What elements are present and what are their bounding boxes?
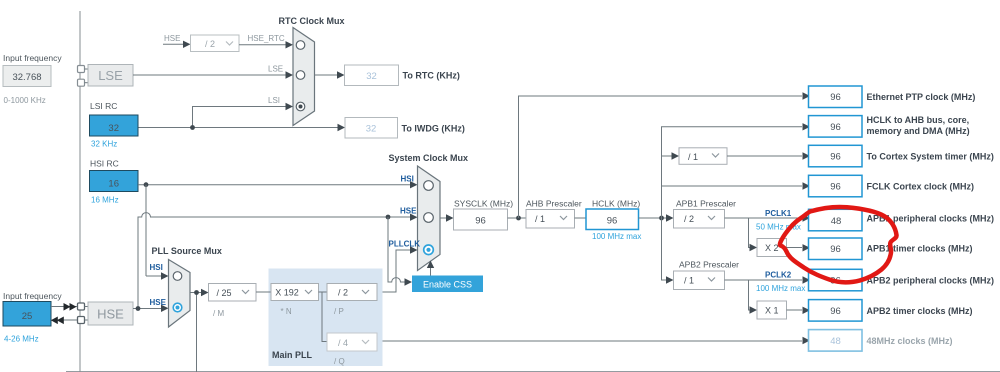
svg-text:To IWDG (KHz): To IWDG (KHz) xyxy=(402,124,465,134)
output row Ethernet PTP xyxy=(809,86,863,108)
svg-text:/ 2: / 2 xyxy=(205,39,215,49)
svg-text:100 MHz max: 100 MHz max xyxy=(756,284,805,293)
APB1 out wire xyxy=(725,217,803,219)
svg-text:AHB Prescaler: AHB Prescaler xyxy=(526,199,582,209)
RTC mux output arrow xyxy=(315,74,339,76)
X2 out wire xyxy=(787,247,803,249)
svg-text:32: 32 xyxy=(366,71,377,82)
CSS feed wire with hop xyxy=(388,217,406,282)
wire LSE to RTC mux xyxy=(133,74,287,76)
svg-text:LSE: LSE xyxy=(268,65,283,74)
wire N to P with branch xyxy=(319,291,328,293)
branch to X2 xyxy=(749,218,752,248)
LSE oscillator block xyxy=(85,68,89,70)
output row HCLK AHB xyxy=(809,116,863,138)
AHB Prescaler dropdown xyxy=(526,210,575,229)
RTC mux port LSE xyxy=(296,71,305,80)
FCLK branch wire xyxy=(662,185,803,187)
svg-text:APB2 timer clocks (MHz): APB2 timer clocks (MHz) xyxy=(867,306,973,316)
svg-text:PCLK1: PCLK1 xyxy=(765,209,792,218)
svg-text:32.768: 32.768 xyxy=(12,72,41,83)
svg-text:PLL Source Mux: PLL Source Mux xyxy=(152,246,222,256)
svg-text:/ 1: / 1 xyxy=(688,152,698,162)
svg-text:/ 1: / 1 xyxy=(535,214,545,224)
HCLK box highlighted xyxy=(586,209,639,230)
RTC mux port HSE_RTC xyxy=(296,41,305,50)
svg-text:32 KHz: 32 KHz xyxy=(91,140,117,149)
HSE out wire to PLL mux xyxy=(133,308,162,310)
svg-text:LSI RC: LSI RC xyxy=(90,101,117,111)
SYSCLK box xyxy=(454,209,508,230)
svg-text:Main PLL: Main PLL xyxy=(272,350,313,360)
wire SYSCLK to AHB prescaler xyxy=(508,217,527,219)
APB2 out wire xyxy=(725,279,803,281)
svg-text:Enable CSS: Enable CSS xyxy=(423,279,472,289)
output row APB2 peripheral xyxy=(809,269,863,291)
svg-text:Input frequency: Input frequency xyxy=(3,291,62,301)
HSE oscillator block xyxy=(85,306,89,308)
APB2 Prescaler dropdown xyxy=(674,271,725,290)
svg-text:memory and DMA (MHz): memory and DMA (MHz) xyxy=(867,126,970,136)
PLL mux port HSE selected xyxy=(173,303,182,312)
svg-text:96: 96 xyxy=(830,152,841,163)
/P dropdown xyxy=(327,284,377,301)
HSI branch down to PLL mux xyxy=(145,185,147,276)
output row APB2 timer xyxy=(809,300,863,322)
pin square HSE bottom xyxy=(78,317,85,324)
HSI RC box xyxy=(90,171,139,192)
wire /2 to RTC mux xyxy=(239,44,287,46)
svg-text:/ P: / P xyxy=(334,307,344,316)
svg-text:48: 48 xyxy=(830,336,841,347)
svg-text:LSE: LSE xyxy=(98,68,123,83)
svg-text:FCLK Cortex clock (MHz): FCLK Cortex clock (MHz) xyxy=(867,182,975,192)
branch to cortex divider xyxy=(662,155,674,157)
svg-text:0-1000 KHz: 0-1000 KHz xyxy=(4,96,46,105)
svg-text:/ 25: / 25 xyxy=(216,288,231,298)
/M dropdown xyxy=(209,284,257,302)
X1 out wire xyxy=(787,309,803,311)
sysmux port HSE xyxy=(424,213,434,223)
red annotation ellipse xyxy=(780,207,897,282)
svg-text:X 2: X 2 xyxy=(765,243,779,253)
svg-text:16 MHz: 16 MHz xyxy=(91,196,119,205)
svg-text:HSE: HSE xyxy=(400,207,417,216)
PLL output rail down xyxy=(196,293,198,372)
HSE input frequency box xyxy=(3,302,51,327)
PLL mux port HSI xyxy=(173,272,182,281)
output row Cortex timer xyxy=(809,145,863,167)
HSE/2 RTC divider dropdown xyxy=(191,35,240,52)
output row APB1 peripheral xyxy=(809,209,863,231)
svg-text:25: 25 xyxy=(22,311,33,322)
svg-text:/ 1: / 1 xyxy=(684,275,694,285)
To IWDG value box xyxy=(345,118,398,139)
X2 box xyxy=(757,239,787,257)
svg-text:96: 96 xyxy=(830,182,841,193)
svg-text:96: 96 xyxy=(607,215,618,226)
svg-text:APB1 Prescaler: APB1 Prescaler xyxy=(676,199,736,209)
output row 48MHz clocks greyed xyxy=(809,330,863,352)
pin square LSE top xyxy=(78,66,85,73)
sysmux port HSI xyxy=(424,181,434,191)
double arrows left xyxy=(51,319,78,321)
double arrows right xyxy=(51,306,78,308)
svg-text:HSI: HSI xyxy=(401,175,414,184)
svg-text:/ M: / M xyxy=(213,309,224,318)
To RTC value box xyxy=(345,65,399,86)
svg-text:HCLK (MHz): HCLK (MHz) xyxy=(592,199,640,209)
svg-text:HSI RC: HSI RC xyxy=(90,159,119,169)
pin square HSE top xyxy=(78,303,85,310)
svg-text:16: 16 xyxy=(108,179,119,190)
svg-text:HCLK to AHB bus, core,: HCLK to AHB bus, core, xyxy=(867,115,970,125)
svg-text:LSI: LSI xyxy=(268,96,280,105)
svg-text:96: 96 xyxy=(830,122,841,133)
svg-text:96: 96 xyxy=(830,92,841,103)
svg-text:HSE_RTC: HSE_RTC xyxy=(248,34,285,43)
svg-text:X 192: X 192 xyxy=(275,288,299,298)
HSE wire up + to system mux with hop xyxy=(138,213,411,309)
svg-text:/ 2: / 2 xyxy=(338,288,348,298)
svg-text:32: 32 xyxy=(108,123,119,134)
sysmux output arrow xyxy=(440,217,448,219)
svg-text:32: 32 xyxy=(366,124,377,135)
RTC mux port LSI selected xyxy=(296,102,305,111)
svg-text:To RTC (KHz): To RTC (KHz) xyxy=(403,71,460,81)
svg-text:96: 96 xyxy=(475,215,486,226)
APB1 Prescaler dropdown xyxy=(674,210,725,229)
svg-text:APB1 timer clocks (MHz): APB1 timer clocks (MHz) xyxy=(867,243,973,253)
svg-text:Input frequency: Input frequency xyxy=(3,53,62,63)
svg-text:/ Q: / Q xyxy=(334,357,345,366)
pin square LSE bottom xyxy=(78,79,85,86)
svg-text:RTC Clock Mux: RTC Clock Mux xyxy=(279,16,345,26)
wire /M to N xyxy=(256,291,271,293)
CSS arrow up into mux xyxy=(430,266,432,276)
riser to Ethernet PTP row xyxy=(519,96,803,218)
wire cortex divider out xyxy=(727,155,802,157)
X1 box xyxy=(757,301,787,319)
svg-text:48: 48 xyxy=(831,216,842,227)
RTC clock mux body xyxy=(293,28,315,126)
svg-text:To Cortex System timer (MHz): To Cortex System timer (MHz) xyxy=(867,152,994,162)
svg-text:SYSCLK (MHz): SYSCLK (MHz) xyxy=(454,199,513,209)
LSI riser wire xyxy=(193,107,288,128)
LSI to IWDG wire xyxy=(138,127,338,129)
output row APB1 timer xyxy=(809,238,863,260)
svg-text:4-26 MHz: 4-26 MHz xyxy=(4,335,39,344)
*N dropdown xyxy=(271,284,319,301)
svg-text:HSE: HSE xyxy=(150,298,167,307)
wire AHB to HCLK xyxy=(575,217,587,219)
bottom window edge xyxy=(66,371,1000,372)
branch to X1 xyxy=(749,280,752,310)
PLLCLK wire from /P xyxy=(377,250,411,292)
svg-text:HSE: HSE xyxy=(97,307,124,322)
svg-text:HSI: HSI xyxy=(150,263,163,272)
PLL mux output xyxy=(190,292,203,294)
svg-text:96: 96 xyxy=(830,306,841,317)
Main PLL panel xyxy=(269,269,383,367)
48MHz wire from /Q xyxy=(377,340,802,342)
LSE input frequency box xyxy=(3,66,51,87)
riser down to APB2 xyxy=(662,218,668,280)
svg-text:PCLK2: PCLK2 xyxy=(765,271,792,280)
svg-text:PLLCLK: PLLCLK xyxy=(389,240,421,249)
LSI RC box xyxy=(90,115,139,136)
output row FCLK xyxy=(809,175,863,197)
Enable CSS button xyxy=(412,276,483,293)
svg-text:/ 2: / 2 xyxy=(684,214,694,224)
riser up to HCLK rows xyxy=(662,127,803,218)
sysmux port PLLCLK selected xyxy=(424,245,434,255)
system clock mux body xyxy=(418,166,441,271)
svg-text:HSE: HSE xyxy=(164,34,180,43)
main input rail xyxy=(79,11,81,372)
svg-text:APB2 Prescaler: APB2 Prescaler xyxy=(679,260,739,270)
PLL source mux body xyxy=(169,260,191,328)
svg-text:96: 96 xyxy=(830,244,841,255)
svg-text:* N: * N xyxy=(281,307,292,316)
svg-text:System Clock Mux: System Clock Mux xyxy=(389,153,469,163)
svg-text:48MHz clocks (MHz): 48MHz clocks (MHz) xyxy=(867,336,953,346)
HSI wire to system mux xyxy=(138,184,411,186)
svg-text:Ethernet PTP clock (MHz): Ethernet PTP clock (MHz) xyxy=(867,92,976,102)
svg-text:APB2 peripheral clocks (MHz): APB2 peripheral clocks (MHz) xyxy=(867,276,995,286)
svg-text:/ 4: / 4 xyxy=(338,338,348,348)
svg-text:X 1: X 1 xyxy=(765,305,779,315)
svg-text:100 MHz max: 100 MHz max xyxy=(592,232,641,241)
/Q dropdown disabled xyxy=(327,333,377,351)
cortex /1 dropdown xyxy=(679,148,727,165)
wire HCLK to APB1 junction xyxy=(639,217,668,219)
